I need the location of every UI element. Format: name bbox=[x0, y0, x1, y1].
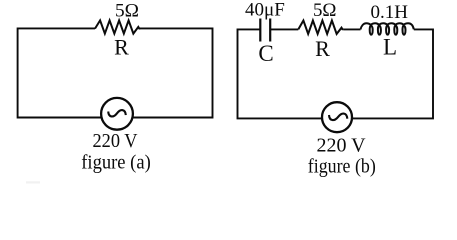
svg-text:220 V: 220 V bbox=[93, 130, 138, 152]
svg-text:L: L bbox=[383, 35, 397, 60]
svg-text:R: R bbox=[315, 36, 330, 61]
svg-text:C: C bbox=[258, 41, 273, 66]
svg-text:figure (a): figure (a) bbox=[81, 152, 151, 174]
capacitor C plates (40uF) bbox=[260, 19, 270, 42]
svg-text:0.1H: 0.1H bbox=[370, 2, 408, 23]
resistor R (figure b, 5 ohm) bbox=[298, 21, 343, 34]
svg-text:figure (b): figure (b) bbox=[308, 156, 376, 178]
resistor R (figure a, 5 ohm) bbox=[95, 20, 140, 33]
svg-text:R: R bbox=[114, 34, 129, 59]
svg-text:5Ω: 5Ω bbox=[313, 0, 337, 21]
wire: figure (b) circuit loop bbox=[238, 29, 434, 118]
svg-text:40μF: 40μF bbox=[245, 0, 285, 21]
svg-text:5Ω: 5Ω bbox=[115, 1, 139, 22]
wire: figure (a) circuit loop bbox=[18, 28, 213, 117]
AC source (figure b) bbox=[322, 102, 352, 132]
faint smudge bottom-left bbox=[26, 181, 40, 183]
inductor L (0.1 H) bbox=[361, 23, 414, 34]
svg-text:220 V: 220 V bbox=[316, 135, 366, 157]
AC source (figure a) bbox=[101, 98, 133, 130]
